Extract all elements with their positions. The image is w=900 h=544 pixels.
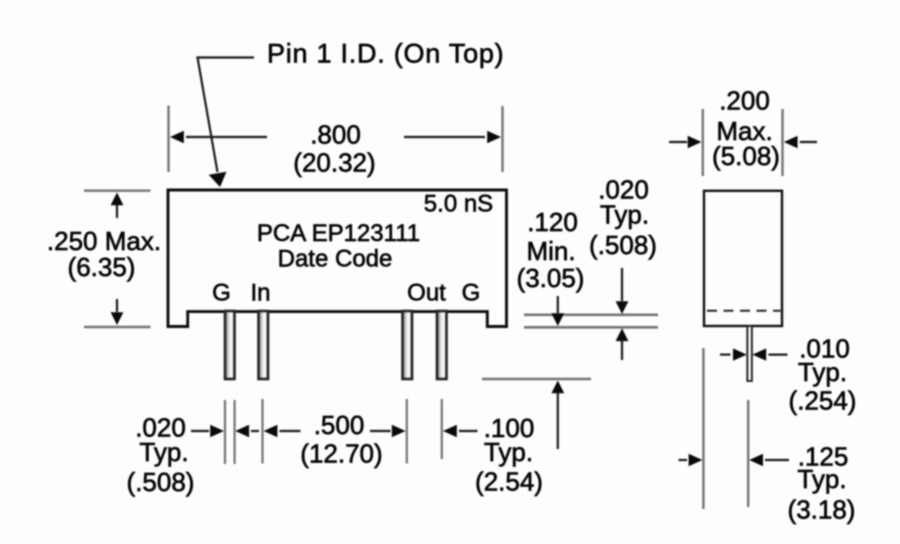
- svg-text:.800: .800: [310, 120, 361, 150]
- svg-text:Out: Out: [407, 280, 446, 307]
- svg-text:Date Code: Date Code: [278, 246, 393, 273]
- arrow pointing left at pin1 right edge: [251, 430, 259, 432]
- .020 pin width arrow (points right): [191, 430, 209, 432]
- .120 up arrow: [557, 393, 559, 449]
- svg-text:(.254): (.254): [789, 386, 857, 416]
- svg-text:(.508): (.508): [589, 230, 657, 260]
- pin 4 (G): [437, 311, 447, 379]
- svg-text:(6.35): (6.35): [68, 252, 136, 282]
- svg-text:.500: .500: [314, 410, 365, 440]
- Pin 1 leader line: [198, 58, 255, 173]
- .200 left arrow: [669, 141, 687, 143]
- Pin 1 leader arrowhead: [209, 172, 227, 187]
- side view: .200 ext line left: [702, 109, 704, 176]
- side view pin: [747, 326, 752, 381]
- svg-text:(20.32): (20.32): [293, 148, 375, 178]
- pin 2 (In): [259, 311, 269, 379]
- svg-text:(12.70): (12.70): [300, 439, 382, 469]
- ext line pin4 center: [441, 399, 443, 459]
- seating plane line (lower gray): [524, 326, 658, 329]
- side view: .200 ext line right: [781, 109, 783, 176]
- .120 down arrow: [557, 296, 559, 313]
- svg-text:.200: .200: [719, 86, 770, 116]
- svg-text:Typ.: Typ.: [600, 200, 649, 230]
- .010 left arrow: [720, 354, 731, 356]
- svg-text:(3.18): (3.18): [788, 495, 856, 525]
- .010 right arrow: [769, 354, 788, 356]
- .250 dim bottom tick: [84, 326, 151, 328]
- .250 down arrow: [116, 299, 118, 312]
- pin tip reference line: [482, 378, 591, 380]
- .800 dim right arrow: [404, 136, 485, 138]
- svg-text:5.0 nS: 5.0 nS: [424, 191, 493, 218]
- .100 left arrow: [459, 430, 478, 432]
- svg-text:(2.54): (2.54): [475, 467, 543, 497]
- .250 up arrow: [116, 205, 118, 218]
- .125 left-pointing arrow: [765, 459, 789, 461]
- .020 down arrow: [621, 268, 623, 301]
- svg-text:In: In: [250, 280, 270, 307]
- package body (front view): [168, 190, 507, 327]
- pin 3 (Out): [403, 311, 413, 379]
- .800 dim extension line right: [501, 106, 503, 172]
- ext line pin3 center: [406, 399, 408, 464]
- .125 ext line left: [702, 348, 704, 509]
- side view dashed line: [707, 310, 781, 312]
- .500 right arrow: [370, 430, 391, 432]
- side view body: [704, 191, 782, 326]
- .500 left arrow: [280, 430, 301, 432]
- svg-text:.120: .120: [527, 207, 578, 237]
- .800 dim extension line left: [167, 106, 169, 173]
- svg-text:(3.05): (3.05): [517, 263, 585, 293]
- .020 up arrow: [621, 341, 623, 360]
- svg-text:Pin 1 I.D. (On Top): Pin 1 I.D. (On Top): [267, 39, 504, 69]
- svg-text:Typ.: Typ.: [798, 357, 847, 387]
- ext line pin1 right edge: [234, 400, 236, 464]
- svg-text:Typ.: Typ.: [484, 437, 533, 467]
- svg-text:Typ.: Typ.: [139, 437, 188, 467]
- .125 ext line right (below pin): [747, 400, 749, 507]
- .200 right arrow: [800, 141, 817, 143]
- svg-text:Min.: Min.: [526, 236, 575, 266]
- seating plane line (upper gray): [524, 313, 658, 316]
- .250 dim top tick: [84, 189, 151, 191]
- svg-text:(.508): (.508): [127, 467, 195, 497]
- svg-text:G: G: [462, 280, 481, 307]
- svg-text:Typ.: Typ.: [797, 464, 846, 494]
- svg-text:(5.08): (5.08): [712, 141, 780, 171]
- svg-text:PCA EP123111: PCA EP123111: [257, 220, 420, 247]
- ext line pin1 left edge: [224, 400, 226, 464]
- svg-text:G: G: [212, 280, 231, 307]
- .800 dim left arrow: [186, 136, 267, 138]
- ext line pin2 center: [261, 399, 263, 464]
- pin 1 (G): [225, 311, 235, 379]
- .125 right-pointing arrow: [679, 459, 688, 461]
